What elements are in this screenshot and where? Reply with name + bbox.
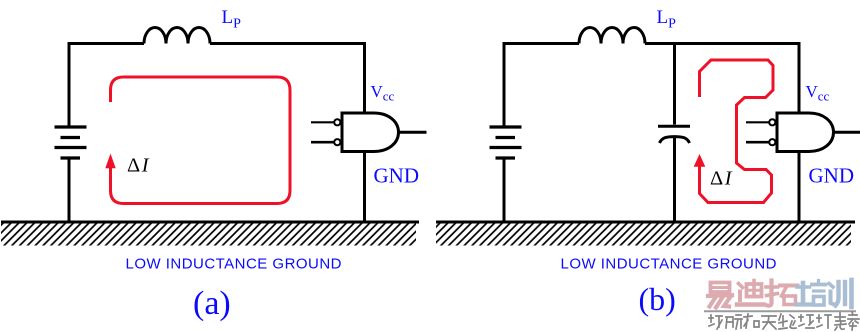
glyph xun bbox=[829, 280, 852, 307]
glyph yi bbox=[708, 283, 732, 308]
char ji bbox=[817, 315, 831, 328]
battery B1 (a) bbox=[55, 127, 87, 158]
label LOW INDUCTANCE GROUND (b) bbox=[561, 256, 777, 273]
label (a) bbox=[193, 285, 231, 322]
label LP (b) bbox=[657, 7, 677, 32]
wire top rail (a) right segment inductor to gate bbox=[210, 44, 365, 114]
watermark underline bbox=[704, 310, 856, 312]
svg-text:LP: LP bbox=[657, 7, 677, 32]
ground plane (b) hatching bbox=[436, 224, 851, 246]
input wires U2 (b) bbox=[746, 122, 769, 142]
svg-text:(a): (a) bbox=[193, 285, 231, 322]
input bubbles U2 (b) bbox=[769, 119, 775, 145]
label delta-I (a) bbox=[127, 155, 150, 177]
char zhuan bbox=[835, 313, 846, 330]
ground plane (a) top line bbox=[1, 221, 419, 224]
char pin bbox=[726, 315, 742, 329]
current loop (a) red bbox=[111, 77, 291, 204]
svg-text:LOW INDUCTANCE GROUND: LOW INDUCTANCE GROUND bbox=[561, 256, 777, 273]
inductor LP (a) bbox=[144, 28, 210, 44]
watermark slogan gray text bbox=[709, 312, 859, 330]
glyph di bbox=[737, 281, 764, 305]
output wire U1 (a) bbox=[399, 131, 427, 134]
output wire U2 (b) bbox=[834, 131, 860, 134]
wire node to capacitor (b) bbox=[673, 42, 676, 125]
glyph pei bbox=[797, 281, 826, 306]
op-amp gate U2 (b) body bbox=[777, 113, 834, 152]
arrow delta-I (a) bbox=[105, 154, 115, 169]
label LOW INDUCTANCE GROUND (a) bbox=[126, 256, 342, 273]
battery B2 (b) bbox=[490, 127, 522, 158]
svg-text:ΔI: ΔI bbox=[127, 155, 150, 177]
label Vcc (a) bbox=[371, 82, 395, 104]
wire top rail (b) left segment battery to inductor bbox=[504, 44, 579, 126]
label delta-I (b) bbox=[710, 168, 733, 190]
label (b) bbox=[639, 281, 676, 317]
char xian bbox=[779, 314, 796, 329]
input wires U1 (a) bbox=[311, 122, 334, 142]
label GND (b) bbox=[809, 164, 855, 188]
svg-text:GND: GND bbox=[374, 164, 420, 188]
label LP (a) bbox=[222, 7, 242, 32]
svg-text:(b): (b) bbox=[639, 281, 676, 317]
input bubbles U1 (a) bbox=[334, 119, 340, 145]
char she2 bbox=[799, 315, 814, 328]
wire battery (b) to ground bbox=[503, 158, 506, 221]
capacitor C1 (b) top plate bbox=[658, 125, 690, 128]
watermark logo yiditiu text bbox=[708, 280, 852, 308]
svg-text:LP: LP bbox=[222, 7, 242, 32]
wire top rail (a) left segment battery to inductor bbox=[69, 44, 144, 126]
wire battery (a) to ground bbox=[68, 158, 71, 221]
svg-text:GND: GND bbox=[809, 164, 855, 188]
svg-text:ΔI: ΔI bbox=[710, 168, 733, 190]
ground plane (a) hatching bbox=[1, 224, 416, 246]
capacitor C1 (b) curved plate bbox=[660, 137, 690, 143]
current loop (b) red bbox=[700, 60, 774, 203]
wire top rail (b) right segment inductor to gate bbox=[645, 44, 799, 114]
glyph tuo bbox=[766, 281, 798, 306]
label GND (a) bbox=[374, 164, 420, 188]
inductor LP (b) bbox=[579, 28, 645, 44]
op-amp gate U1 (a) body bbox=[342, 113, 399, 152]
char tian bbox=[762, 316, 776, 329]
ground plane (b) top line bbox=[436, 221, 855, 224]
label Vcc (b) bbox=[806, 82, 830, 104]
char she bbox=[709, 315, 722, 329]
svg-text:Vcc: Vcc bbox=[806, 82, 830, 104]
wire capacitor (b) to ground bbox=[673, 138, 676, 222]
char he bbox=[744, 314, 759, 328]
wire gate (a) to ground bbox=[363, 152, 366, 222]
char jia bbox=[848, 312, 859, 330]
svg-text:LOW INDUCTANCE GROUND: LOW INDUCTANCE GROUND bbox=[126, 256, 342, 273]
svg-text:Vcc: Vcc bbox=[371, 82, 395, 104]
arrow delta-I (b) bbox=[694, 154, 706, 167]
wire gate (b) to ground bbox=[798, 152, 801, 222]
